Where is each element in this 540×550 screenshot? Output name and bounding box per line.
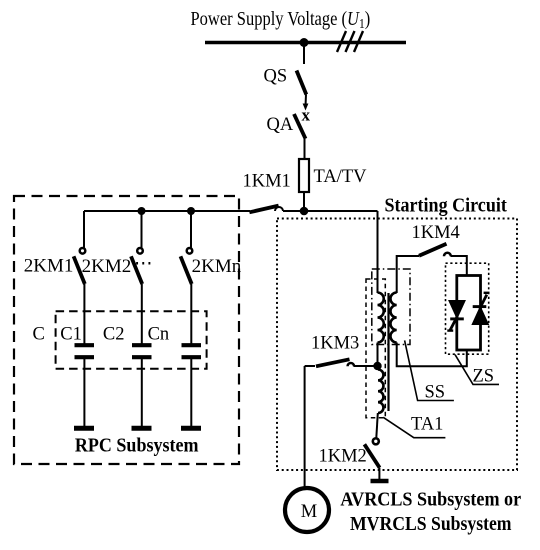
contactor 2KMn blade [181,256,192,284]
transformer element TA/TV [299,159,309,192]
power bus [205,41,406,44]
wire: main horizontal left run [84,210,250,212]
wire: branch 1 drop [83,211,85,248]
node: branch 2 junction [138,207,146,215]
ZS dashed box [446,263,489,354]
arrowhead on QS wire [303,104,309,111]
wire: secondary bottom to ZS bottom [397,343,467,367]
svg-text:AVRCLS Subsystem or: AVRCLS Subsystem or [340,489,521,511]
node: tap junction on main line [300,207,309,216]
wire: blade to capacitor C2 [141,284,143,344]
contactor 1KM1 hook [275,207,283,211]
bus slash 1 [337,31,346,52]
wire: TA/TV to main node [303,192,305,212]
leader line SS [405,340,454,400]
svg-text:1KM1: 1KM1 [243,172,291,192]
transformer TA1 winding [378,370,383,414]
breaker QA blade [294,114,306,139]
wire: secondary top to 1KM4 [397,256,419,293]
wire: SS primary to junction [377,343,379,367]
contactor 1KM2 blade [364,444,379,467]
svg-text:TA/TV: TA/TV [314,167,368,187]
capacitor C2 [132,345,152,357]
wire: Cn to ground [190,359,192,426]
wire: blade to capacitor Cn [190,284,192,344]
contactor 1KM4 hook circle [444,253,451,256]
svg-text:Cn: Cn [148,325,170,345]
node: bus tap junction [300,38,309,47]
wire: 1KM3 left stub [305,365,315,367]
svg-text:1KM4: 1KM4 [412,223,460,243]
svg-text:M: M [301,502,317,522]
wire: 1KM3 corner to motor [304,366,306,488]
transformer core [387,293,389,411]
motor M circle [285,488,329,532]
contactor 2KM2 blade [131,256,142,284]
wire: branch 3 drop [190,211,192,248]
leader line TA1 [383,417,445,437]
svg-text:2KM1: 2KM1 [24,256,74,277]
contactor 1KM3 hook circle [348,363,354,366]
contactor 1KM4 blade [419,244,447,256]
label MVRCLS Subsystem [350,513,512,535]
svg-text:SS: SS [425,383,446,403]
leader line ZS [455,355,499,385]
wire: blade to capacitor C1 [83,284,85,344]
transformer SS secondary winding [390,293,396,343]
label: Power Supply Voltage (U1) [191,8,371,32]
starting circuit dotted box [277,219,517,471]
wire: C1 to ground [83,359,85,426]
wire: TA1 to 1KM2 [376,413,378,438]
thyristor left (downward) [447,301,464,331]
wire: main horizontal right run [283,210,378,212]
label AVRCLS Subsystem or [340,489,521,511]
SS dash-dot box [372,269,410,345]
contactor 2KM1 hook circle [80,248,86,254]
contactor 1KM3 blade [316,359,350,366]
svg-text:MVRCLS Subsystem: MVRCLS Subsystem [350,513,512,535]
svg-text:C1: C1 [60,325,82,345]
disconnector QS blade [297,71,307,95]
svg-text:2KM2: 2KM2 [82,256,132,277]
bus slash 2 [346,31,355,52]
svg-text:2KMn: 2KMn [192,256,242,277]
ground: branch 3 [181,426,201,431]
label RPC Subsystem [75,435,199,457]
svg-text:Power Supply Voltage (U1): Power Supply Voltage (U1) [191,8,371,32]
ZS thyristor block rectangle [457,276,481,351]
capacitor Cn [182,345,202,357]
label Starting Circuit [385,195,508,217]
svg-text:⋯: ⋯ [134,254,153,274]
contactor 1KM1 blade [249,206,278,213]
wire: 1KM3 to junction [354,365,378,367]
node: junction on main line [373,362,381,370]
ground: branch 2 [132,426,152,431]
node: branch 3 junction [187,207,195,215]
wire: QA to TA/TV [304,139,306,159]
contactor 2KM2 hook circle [137,248,143,254]
svg-text:1KM3: 1KM3 [311,334,359,354]
transformer SS primary winding [378,293,384,343]
TA1 dashed box [366,279,385,418]
contactor 2KM1 blade [74,256,85,284]
svg-text:RPC Subsystem: RPC Subsystem [75,435,199,457]
wire: 1KM2 to ground [378,468,380,479]
capacitor bank dashed box [56,311,207,369]
svg-text:ZS: ZS [473,367,495,387]
svg-text:1KM2: 1KM2 [319,447,367,467]
svg-text:Starting Circuit: Starting Circuit [385,195,508,217]
wire: branch 2 drop [141,211,143,248]
svg-text:x: x [302,106,311,125]
bus slash 3 [354,31,363,52]
RPC subsystem dashed box [14,196,239,464]
capacitor C1 [75,345,95,357]
contactor 1KM2 hook circle [373,438,379,444]
svg-text:TA1: TA1 [411,415,443,435]
wire: 1KM4 to ZS top [451,256,467,276]
svg-text:QA: QA [267,115,294,135]
svg-text:QS: QS [264,67,288,87]
ground: 1KM2 [371,479,389,484]
wire: C2 to ground [141,359,143,426]
wire: QS to breaker cross [305,95,308,107]
contactor 2KMn hook circle [187,248,193,254]
thyristor right (upward) [473,293,490,324]
wire: main vertical into starting circuit [377,211,379,293]
svg-text:C: C [33,325,45,345]
wire: bus to QS [303,43,305,65]
svg-text:C2: C2 [103,325,125,345]
ground: branch 1 [74,426,94,431]
